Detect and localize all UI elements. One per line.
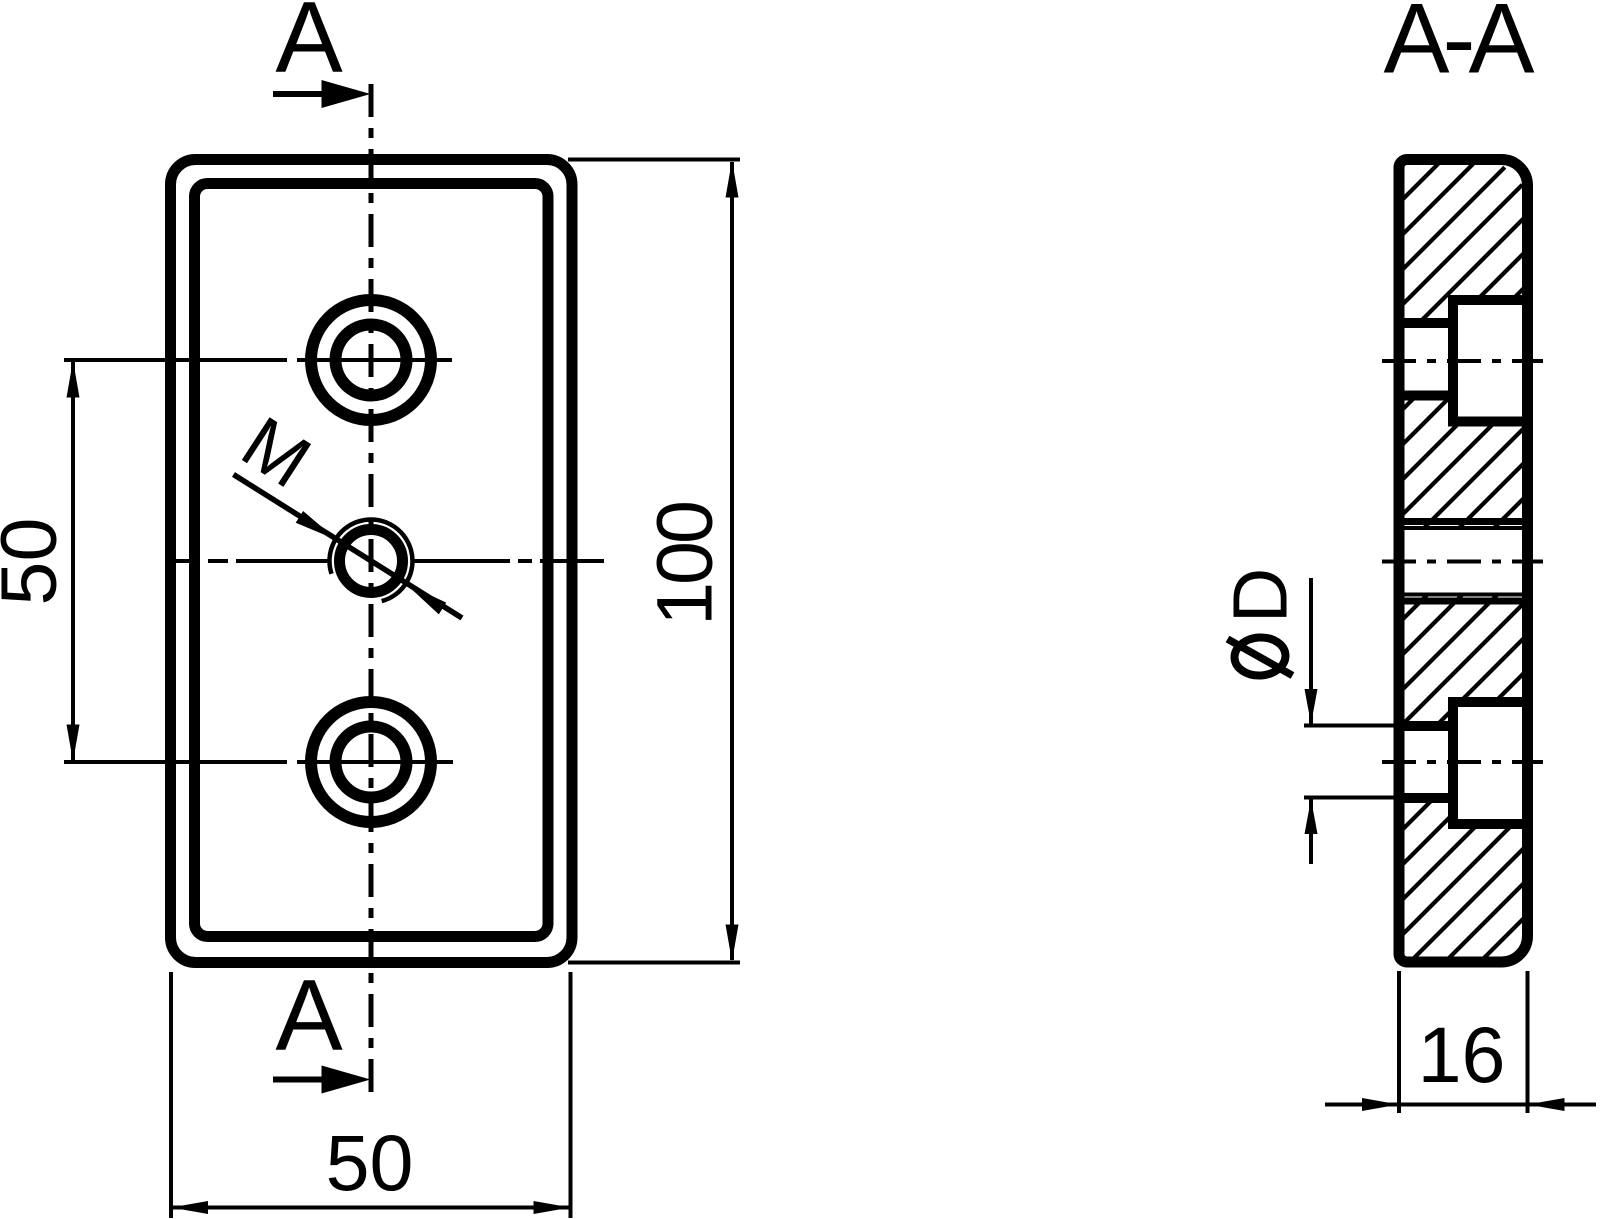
- section hole S1 centerline: [1382, 359, 1543, 363]
- svg-text:D: D: [1218, 568, 1304, 624]
- dimension 50 bottom: extension lines: [171, 972, 571, 1218]
- svg-text:A: A: [275, 0, 343, 94]
- plate outer outline: [171, 160, 573, 963]
- section hole S3 (bottom counterbore) small hole lines: [1394, 726, 1457, 798]
- svg-text:50: 50: [0, 518, 73, 606]
- hole H2 horizontal centerline: [174, 559, 604, 563]
- svg-text:100: 100: [640, 503, 729, 626]
- hole H1 horizontal centerline: [64, 358, 452, 362]
- hole H1 inner circle: [336, 325, 407, 396]
- hole H2 thread arc: [329, 520, 412, 602]
- dimension 50 bottom: text: [326, 1118, 414, 1207]
- dimension 16: text: [1418, 1010, 1506, 1099]
- section hole S3 centerline: [1382, 760, 1543, 764]
- svg-text:50: 50: [326, 1118, 414, 1207]
- hole H3 horizontal centerline: [64, 760, 453, 764]
- dimension 100 right: text: [640, 503, 729, 626]
- svg-text:A-A: A-A: [1383, 0, 1534, 94]
- section label A bottom: [275, 960, 343, 1072]
- section hole S2 centerline: [1382, 560, 1543, 564]
- hole H3 inner circle: [336, 727, 407, 798]
- section hole S1 (top counterbore) small hole lines: [1394, 323, 1457, 396]
- hatching region 1 (top): [1405, 165, 1523, 319]
- dimension 50 bottom: dimension line and arrows: [171, 1201, 571, 1214]
- section outline: [1399, 160, 1528, 963]
- section arrow bottom: [273, 1066, 371, 1094]
- section hole S2 thread minor lines: [1404, 528, 1522, 595]
- section hole S2 (tapped) thread major lines: [1394, 522, 1531, 602]
- dimension 100 right: extension lines: [568, 160, 740, 963]
- dimension 16: extension lines: [1399, 971, 1528, 1113]
- hatching region 4 (bottom): [1405, 803, 1523, 957]
- section arrow top: [273, 80, 371, 108]
- plate inner edge outline: [195, 184, 549, 937]
- svg-text:16: 16: [1418, 1010, 1506, 1099]
- section hole S3 counterbore lines: [1448, 702, 1531, 824]
- section hole S1 counterbore lines: [1448, 300, 1531, 422]
- dimension D: extension lines: [1304, 726, 1398, 798]
- dimension 100 right: dimension line and arrows: [726, 161, 739, 962]
- hatching region 3: [1405, 593, 1523, 721]
- hole H3 bottom counterbore: outer circle: [311, 702, 431, 822]
- label M: [228, 400, 325, 503]
- dimension D: text: [1218, 568, 1304, 678]
- hole H1 top counterbore: outer circle: [311, 300, 431, 420]
- leader line for thread label M: [234, 475, 463, 619]
- section hole S1 counterbore step: [1448, 296, 1458, 425]
- section label A-A: [1383, 0, 1534, 94]
- hole H2 middle tapped hole: drilled circle: [340, 530, 403, 593]
- hatching region 2: [1405, 401, 1523, 530]
- svg-text:A: A: [275, 960, 343, 1072]
- dimension 50 left: dimension line and arrows: [67, 361, 80, 762]
- dimension D: dimension line and arrows: [1309, 578, 1313, 864]
- section hole S3 counterbore step: [1448, 698, 1458, 827]
- vertical centerline: [369, 84, 374, 1098]
- dimension 50 left: text: [0, 518, 73, 606]
- section label A top: [275, 0, 343, 94]
- dimension 16: dimension line and arrows: [1325, 1098, 1596, 1111]
